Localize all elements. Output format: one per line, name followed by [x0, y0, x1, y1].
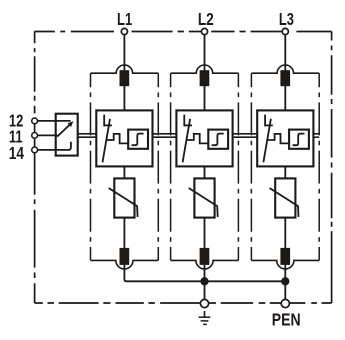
spark gap U3 disconnector blade [263, 119, 271, 163]
varistor RV2 diagonal stroke [189, 188, 218, 217]
linkage double line contact box to unit 1 upper [78, 133, 97, 135]
spark gap unit U1 box [96, 110, 152, 166]
svg-text:L2: L2 [198, 10, 214, 29]
spark gap U2 trigger step line [187, 134, 208, 144]
spark gap U2 trigger step symbol [212, 134, 224, 146]
module 3 box left edge [250, 73, 252, 260]
wire junction 3 to PEN terminal [284, 281, 286, 300]
changeover contact arrowhead [68, 121, 74, 127]
wire terminal 14 with bend [35, 142, 71, 150]
spark gap unit U3 box [257, 110, 313, 166]
module 3 box top edge with wire hop [251, 65, 319, 73]
junction node module 2 [200, 277, 208, 285]
module 3 bottom clamp terminal [280, 248, 290, 265]
enclosure border right [331, 32, 333, 304]
linkage double line unit 2 to unit 3 upper [233, 133, 258, 135]
svg-text:PEN: PEN [272, 310, 301, 330]
module 1 box top edge with wire hop [91, 65, 159, 73]
varistor RV3 body [275, 178, 295, 217]
wire junction 2 to ground terminal [204, 281, 206, 300]
terminal circle 14 [32, 147, 38, 153]
spark gap U1 electrode stub [103, 115, 105, 127]
module 3 top clamp terminal [280, 70, 290, 86]
module 3 box right edge [318, 73, 320, 260]
spark gap U2 electrode tick [184, 124, 192, 126]
linkage double line unit 1 to unit 2 upper [153, 133, 177, 135]
module 1 box left edge [90, 73, 92, 260]
spark gap U1 disconnector blade [103, 119, 111, 163]
svg-text:14: 14 [9, 144, 24, 163]
wire top clamp to spark gap unit 2 [204, 86, 206, 110]
module 2 box bottom edge with wire hop [171, 260, 239, 269]
module 2 box top edge with wire hop [171, 65, 239, 73]
wire terminal 11 [35, 134, 58, 136]
module 1 box bottom edge with wire hop [91, 260, 159, 269]
module 2 top clamp terminal [200, 70, 210, 86]
wire module 1 bottom clamp to earth bus [124, 265, 285, 281]
module 3 box bottom edge with wire hop [251, 260, 319, 269]
linkage double line unit 1 to unit 2 lower [153, 136, 177, 138]
wire module 2 bottom clamp to earth bus [204, 265, 206, 281]
spark gap U1 trigger step line [107, 134, 128, 144]
spark gap U1 trigger step symbol [132, 134, 144, 146]
module 2 box right edge [237, 73, 239, 260]
remote contact box [56, 114, 78, 156]
PEN terminal circle [281, 299, 289, 307]
spark gap U1 trigger device box [128, 130, 148, 149]
changeover contact blade [57, 123, 71, 136]
spark gap U3 electrode tick [265, 124, 273, 126]
linkage double line unit 2 to unit 3 lower [233, 136, 258, 138]
wire varistor to bottom clamp 2 [204, 218, 206, 249]
spark gap U3 trigger step symbol [293, 134, 305, 146]
varistor RV1 body [114, 178, 134, 217]
wire varistor to bottom clamp 3 [284, 218, 286, 249]
ground symbol stem [204, 311, 206, 317]
svg-text:L1: L1 [117, 10, 132, 30]
linkage double line unit 3 stub lower [313, 136, 319, 138]
spark gap U2 trigger device box [208, 130, 228, 149]
wire top clamp to spark gap unit 1 [123, 86, 125, 110]
module 2 bottom clamp terminal [200, 248, 210, 265]
wire L1 terminal to top clamp [123, 35, 125, 71]
linkage double line unit 3 stub upper [313, 133, 319, 135]
svg-text:L3: L3 [279, 10, 294, 30]
varistor RV3 diagonal stroke [270, 188, 299, 217]
wire L3 terminal to top clamp [284, 35, 286, 71]
wire varistor to bottom clamp 1 [123, 218, 125, 249]
enclosure border bottom [35, 302, 332, 304]
spark gap U2 disconnector blade [183, 119, 191, 163]
junction node module 3 [281, 277, 289, 285]
wire terminal 12 [35, 120, 71, 122]
module 2 box left edge [170, 73, 172, 260]
spark gap U2 electrode stub [183, 115, 185, 127]
phase terminal circle L2 [201, 28, 207, 34]
spark gap U3 trigger device box [289, 130, 309, 149]
module 1 box right edge [157, 73, 159, 260]
phase terminal circle L1 [121, 28, 127, 34]
spark gap U1 electrode tick [104, 124, 112, 126]
wire spark gap unit 1 to varistor [123, 166, 125, 178]
wire top clamp to spark gap unit 3 [284, 86, 286, 110]
varistor RV2 body [194, 178, 214, 217]
wire spark gap unit 2 to varistor [204, 166, 206, 178]
spark gap U3 trigger step line [268, 134, 289, 144]
terminal circle 11 [32, 133, 38, 139]
spark gap U3 electrode stub [264, 115, 266, 127]
wire spark gap unit 3 to varistor [284, 166, 286, 178]
ground symbol bar 1 [199, 316, 211, 318]
enclosure border top [34, 31, 331, 33]
linkage double line contact box to unit 1 lower [78, 136, 97, 138]
enclosure border left [34, 32, 36, 304]
varistor RV1 diagonal stroke [109, 188, 138, 217]
module 1 bottom clamp terminal [120, 248, 130, 265]
module 1 top clamp terminal [120, 70, 130, 86]
spark gap unit U2 box [176, 110, 232, 166]
terminal circle 12 [32, 118, 38, 124]
ground symbol bar 2 [201, 320, 209, 322]
wire L2 terminal to top clamp [204, 35, 206, 71]
ground symbol bar 3 [203, 323, 207, 325]
wire module 3 bottom clamp to earth bus [284, 265, 286, 281]
ground terminal circle [200, 299, 208, 307]
phase terminal circle L3 [282, 28, 288, 34]
